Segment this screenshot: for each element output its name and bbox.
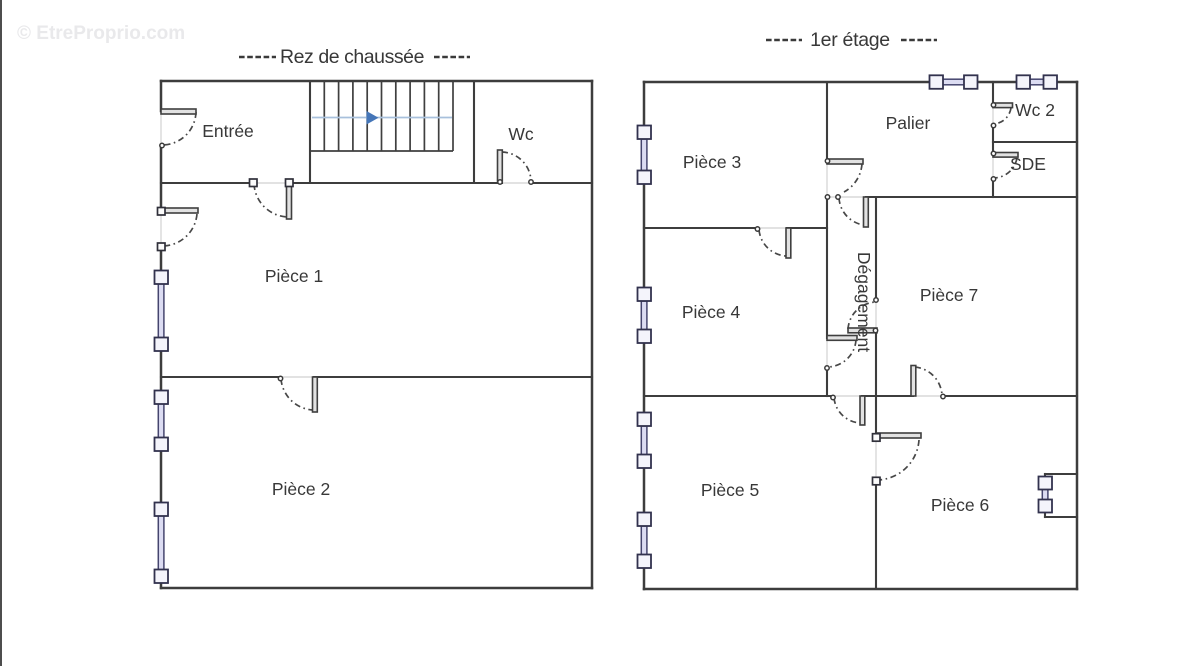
svg-text:Pièce 7: Pièce 7 bbox=[920, 285, 978, 305]
svg-text:Pièce 1: Pièce 1 bbox=[265, 266, 323, 286]
svg-text:Pièce 6: Pièce 6 bbox=[931, 495, 989, 515]
svg-text:Palier: Palier bbox=[886, 113, 931, 133]
svg-text:© EtreProprio.com: © EtreProprio.com bbox=[17, 23, 185, 44]
svg-text:Pièce 2: Pièce 2 bbox=[272, 479, 330, 499]
svg-text:Pièce 5: Pièce 5 bbox=[701, 480, 759, 500]
svg-text:Pièce 4: Pièce 4 bbox=[682, 302, 741, 322]
svg-text:Entrée: Entrée bbox=[202, 121, 254, 141]
svg-text:Wc: Wc bbox=[508, 124, 534, 144]
svg-text:Dégagement: Dégagement bbox=[854, 252, 874, 352]
svg-text:Pièce 3: Pièce 3 bbox=[683, 152, 741, 172]
svg-text:Rez de chaussée: Rez de chaussée bbox=[280, 46, 424, 68]
svg-text:SDE: SDE bbox=[1010, 154, 1046, 174]
svg-text:1er étage: 1er étage bbox=[810, 29, 890, 51]
svg-text:Wc 2: Wc 2 bbox=[1015, 100, 1055, 120]
